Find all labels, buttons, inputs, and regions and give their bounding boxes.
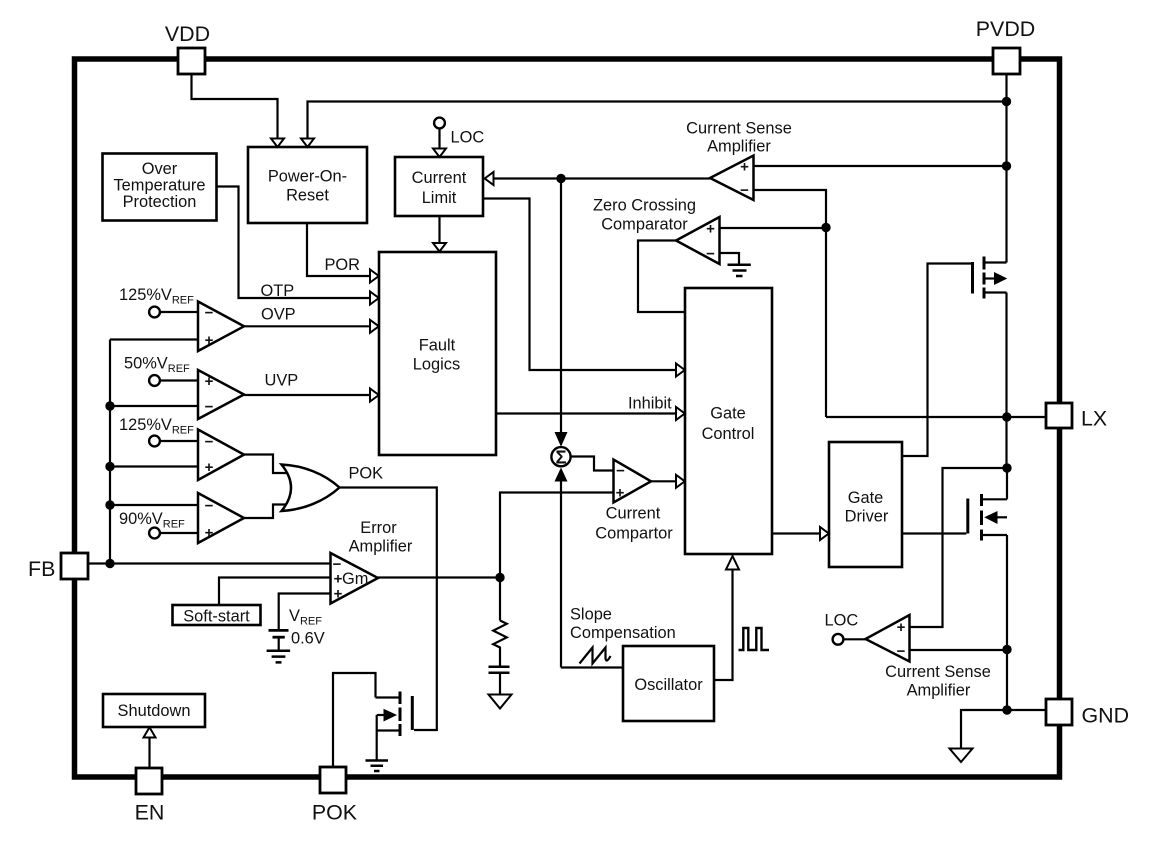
transistor Q2 body stub [996,516,1007,518]
svg-text:Temperature: Temperature [113,177,205,195]
wire Current Sense Amplifier - input to LX net [754,190,827,417]
svg-text:Amplifier: Amplifier [707,138,771,156]
transistor Q3 channel [399,692,402,737]
arrowhead summer top input [555,432,568,447]
svg-text:UVP: UVP [265,372,299,390]
block Gate Driver [829,442,902,567]
transistor Q1 body stub [984,277,995,279]
arrowhead Oscillator into Gate Control [726,556,739,570]
svg-text:+: + [205,459,214,476]
wire VDD pin to Power-On-Reset [192,74,278,140]
node compensation [495,573,504,582]
wire 125%VREF terminal to POK comparator A [160,440,198,442]
op-amp Current Sense Amplifier bottom [866,615,910,662]
svg-text:−: − [740,182,749,199]
op-amp Current Sense Amplifier top [710,156,754,201]
wire VREF battery to Error Amplifier + input [279,594,331,630]
pin LX [1046,403,1072,428]
wire bus to POK comparator A + input [110,465,198,467]
OR gate POK [282,465,340,512]
comparator UVP [198,370,244,419]
wire high-side source to LX node [1005,293,1007,469]
svg-text:Gm: Gm [342,570,368,588]
wire low-side drain to LX node [1006,468,1008,499]
svg-text:+: + [205,525,214,542]
wire UVP comparator output to Fault Logics [244,394,370,396]
arrowhead summer bottom input [555,468,568,482]
wire current sense signal down to summer [560,179,562,433]
wire POK net OR gate output to open-drain gate [340,488,437,731]
wire 125%VREF terminal to OVP comparator [160,311,198,313]
svg-text:+: + [706,221,715,238]
wire LX net to LX pin [826,416,1046,418]
svg-text:Amplifier: Amplifier [907,682,971,700]
svg-text:−: − [205,434,214,451]
wire 50%VREF terminal to UVP comparator [160,379,198,381]
svg-text:LOC: LOC [825,612,859,630]
pin GND [1046,699,1072,725]
comparator Zero Crossing Comparator [676,217,720,264]
wire open-drain MOSFET source to ground [376,715,378,760]
svg-text:Shutdown: Shutdown [118,702,191,720]
transistor Q1 source stub [984,291,1007,293]
IC boundary [75,59,1060,777]
svg-text:0.6V: 0.6V [291,630,325,648]
svg-text:LX: LX [1081,407,1107,431]
wire OTP Over Temperature Protection to Fault Logics [217,187,371,299]
svg-text:GND: GND [1082,704,1130,728]
svg-text:POK: POK [312,801,358,825]
arrowhead Current Compartor into Gate Control [676,475,685,488]
pin FB [61,553,88,579]
transistor Q3 source stub [377,729,400,731]
wire GND node to ground symbol [961,710,1007,749]
svg-text:Zero Crossing: Zero Crossing [593,197,696,215]
capacitor VREF battery plates [269,629,289,632]
svg-text:Reset: Reset [286,187,329,205]
terminal LOC top [434,118,445,129]
svg-text:Gate: Gate [848,489,884,507]
ground open arrow near GND pin [950,749,973,763]
svg-text:Soft-start: Soft-start [183,608,250,626]
svg-text:POR: POR [325,256,361,274]
node LX [1002,412,1011,421]
wire FB bus vertical [109,340,111,564]
node FB bus at UVP [105,401,114,410]
sawtooth slope compensation symbol [580,648,611,664]
node FB bus at POK B [105,500,114,509]
svg-text:Current Sense: Current Sense [686,120,792,138]
arrowhead OTP into Fault Logics [370,292,379,305]
node low-side source sense [1002,645,1011,654]
svg-text:−: − [706,246,715,263]
transistor Q2 drain stub [982,498,1008,500]
wire Zero Crossing Comparator - input to ground [720,253,740,264]
svg-text:Logics: Logics [413,356,460,374]
block Gate Control [685,288,772,554]
svg-text:Fault: Fault [419,337,456,355]
block Shutdown [103,694,205,727]
wire POK pin to open-drain MOSFET drain [333,673,376,767]
wire Gate Driver to high-side gate [902,264,971,457]
square wave oscillator symbol [739,628,770,650]
svg-text:Protection: Protection [123,193,197,211]
block Fault Logics [379,252,496,455]
transistor Q2 channel [980,494,983,541]
node GND [1002,705,1011,714]
ground below VREF battery [267,651,291,663]
wire POK comparator A output to OR gate [244,455,287,474]
wire PVDD pin down to high-side drain [1005,73,1007,263]
wire LOC terminal to Current Limit [438,129,440,149]
node zero crossing LX [821,223,830,232]
node CSA input at PVDD [1002,161,1011,170]
wire Current Sense Amplifier output to Current Limit [493,177,711,179]
wire Oscillator output to Gate Control [714,569,733,680]
svg-text:Gate: Gate [710,405,746,423]
svg-text:Inhibit: Inhibit [628,395,672,413]
arrowhead into Current Limit right [485,172,494,185]
wire Current Limit output to Gate Control [484,199,677,371]
comparator POK B [198,493,244,543]
svg-text:−: − [205,305,214,322]
wire Error Amplifier output to compensation node [378,576,500,578]
svg-text:Over: Over [142,160,178,178]
wire bottom Current Sense Amplifier - input to GND net [910,649,1008,651]
wire Current Sense Amplifier + input to PVDD node [754,165,1007,167]
wire POR Power-On-Reset to Fault Logics [307,224,370,277]
svg-text:Control: Control [702,425,755,443]
wire FB pin to Error Amplifier - input [88,562,331,564]
svg-text:Current Sense: Current Sense [885,663,991,681]
svg-text:−: − [616,463,625,480]
block Soft-start [173,605,261,625]
wire summer output to Current Compartor - input [571,457,614,471]
block Current Limit [395,157,483,216]
wire bus to UVP comparator - input [110,405,198,407]
arrowhead into Power-On-Reset right [301,139,314,148]
svg-text:Current: Current [606,505,661,523]
svg-text:Comparator: Comparator [601,216,688,234]
svg-text:+: + [616,485,625,502]
wire battery negative to ground [278,638,280,650]
resistor compensation R [493,621,507,667]
pin VDD [178,48,205,74]
wire Soft-start to Error Amplifier + input [219,578,331,606]
wire GND node to GND pin [1007,709,1046,711]
transistor Q2 low-side MOSFET gate bar [966,499,969,534]
wire EN pin to Shutdown [148,738,150,769]
svg-text:POK: POK [349,465,384,483]
node FB bus at FB wire [105,559,114,568]
svg-text:Compensation: Compensation [570,624,676,642]
transistor Q1 drain stub [984,261,1007,263]
svg-text:+: + [334,586,343,603]
svg-text:Σ: Σ [555,446,566,467]
transistor Q1 channel [983,257,986,299]
wire Current Limit to Fault Logics [438,217,440,244]
svg-text:−: − [205,498,214,515]
arrowhead OVP into Fault Logics [370,320,379,333]
comparator OVP [198,302,244,352]
node FB bus at POK A [105,462,114,471]
op-amp Error Amplifier Gm [331,553,379,604]
wire Current Compartor output to Gate Control [651,480,676,482]
arrowhead into Power-On-Reset left [271,139,284,148]
wire low-side source to GND node [1006,535,1008,710]
node VDD rail at PVDD [1002,97,1011,106]
terminal 50%VREF UVP [149,375,160,386]
svg-text:+: + [205,373,214,390]
block Power-On-Reset [248,147,367,223]
node current sense output [556,174,565,183]
svg-text:Power-On-: Power-On- [268,168,347,186]
arrowhead current limit signal into Gate Control [676,364,685,377]
wire Zero Crossing Comparator + input to LX net [720,227,827,229]
arrowhead Inhibit into Gate Control [676,407,685,420]
wire Gate Control to Gate Driver [772,532,820,534]
transistor Q2 body arrow [984,511,997,524]
summer sigma [551,447,570,466]
wire OVP comparator output to Fault Logics [244,325,370,327]
transistor Q3 body arrow [384,709,398,722]
arrowhead Current Limit into Fault Logics [433,243,446,252]
svg-text:LOC: LOC [451,129,485,147]
svg-text:Driver: Driver [845,508,889,526]
comparator POK A [198,430,244,481]
ground open arrow below compensation C [489,695,512,709]
pin EN [136,768,162,794]
wire Power-On-Reset top to PVDD rail (VDD net) [308,102,1007,140]
arrowhead LOC into Current Limit [433,149,446,158]
svg-text:FB: FB [28,557,55,581]
node low-side drain [1002,463,1011,472]
terminal 125%VREF OVP [149,307,160,318]
transistor Q3 POK open-drain MOSFET gate bar [411,696,414,730]
wire LOC terminal to bottom Current Sense Amplifier [844,638,866,640]
svg-text:Limit: Limit [422,189,457,207]
pin PVDD [993,48,1020,74]
svg-text:Amplifier: Amplifier [349,538,413,556]
svg-text:Current: Current [412,169,467,187]
wire 90%VREF terminal to POK comparator B [160,532,198,534]
svg-text:−: − [897,643,906,660]
ground Zero Crossing Comparator [728,265,751,276]
ground POK MOSFET source [366,761,389,772]
wire LX node to bottom Current Sense Amplifier + input [910,468,1007,627]
wire compensation node down to resistor [499,578,501,621]
wire bus to POK comparator B - input [110,504,198,506]
svg-text:Slope: Slope [570,606,612,624]
svg-text:EN: EN [135,801,165,825]
wire slope compensation to summer [561,480,623,668]
svg-text:+: + [897,619,906,636]
wire Zero Crossing Comparator output to Gate Control [638,241,685,313]
arrowhead UVP into Fault Logics [370,389,379,402]
pin POK [320,767,346,793]
svg-text:OTP: OTP [261,282,295,300]
svg-text:Compartor: Compartor [595,525,673,543]
terminal 125%VREF POK A [149,436,160,447]
block Over Temperature Protection [103,154,217,221]
comparator Current Compartor [614,460,652,503]
arrowhead into Gate Driver [820,527,829,540]
svg-text:+: + [205,332,214,349]
transistor Q3 drain stub [376,696,401,698]
capacitor compensation C [489,667,510,673]
svg-text:PVDD: PVDD [976,17,1035,41]
terminal 90%VREF POK B [149,528,160,539]
terminal LOC bottom [833,634,844,645]
transistor Q2 source stub [982,534,1008,536]
svg-text:Error: Error [360,519,397,537]
svg-text:OVP: OVP [261,306,296,324]
wire bus to OVP comparator + input [110,338,198,340]
wire Inhibit Fault Logics to Gate Control [496,412,677,414]
arrowhead POR into Fault Logics [370,270,379,283]
arrowhead EN into Shutdown [144,727,156,737]
svg-text:Oscillator: Oscillator [634,676,703,694]
transistor Q3 body stub [377,714,384,716]
transistor Q1 high-side MOSFET gate bar [971,262,974,294]
svg-text:−: − [205,399,214,416]
wire Gate Driver to low-side gate [902,532,966,534]
wire compensation node up to Current Compartor + input [500,493,614,578]
svg-text:+: + [740,159,749,176]
block Oscillator [623,646,714,721]
wire POK comparator B output to OR gate [244,505,287,519]
transistor Q1 body arrow [994,272,1007,285]
svg-text:VDD: VDD [165,22,210,46]
